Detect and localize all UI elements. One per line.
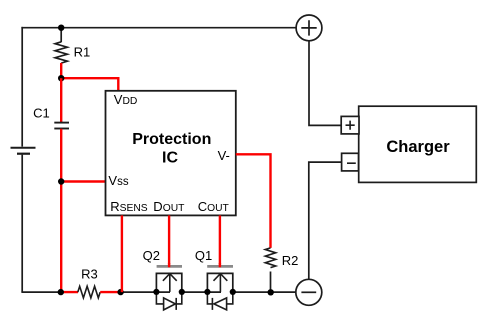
- wire DOUT red overlap on Q2 gate bar: [168, 263, 170, 267]
- wire DOUT pin to Q2 gate (red): [168, 215, 170, 264]
- svg-text:C1: C1: [33, 106, 50, 121]
- svg-text:Protection: Protection: [132, 131, 211, 148]
- wire VSS net: junction to IC VSS pin (red): [61, 180, 105, 182]
- wire pack - to charger - terminal: [309, 162, 342, 279]
- wire battery - down to bottom rail: [21, 155, 23, 293]
- wire R1 top lead (black): [60, 28, 62, 43]
- svg-text:Vss: Vss: [108, 173, 128, 188]
- wire V- net: IC pin to R2 (red): [236, 154, 271, 248]
- svg-text:R1: R1: [74, 45, 91, 60]
- wire R3 left lead (red): [61, 291, 78, 293]
- node pack - terminal (circle with minus): [296, 279, 322, 305]
- wire C1 bottom lead / VSS net down to bottom rail (red): [60, 129, 62, 292]
- node VDD junction: [58, 75, 64, 81]
- resistor R3: [78, 286, 100, 298]
- charger box: [359, 106, 477, 182]
- transistor Q2 (MOSFET with body diode): [156, 266, 182, 310]
- resistor R2: [265, 248, 275, 268]
- svg-text:Q1: Q1: [195, 248, 212, 263]
- wire pack + to charger + terminal: [309, 41, 341, 126]
- node Q2 source junction: [153, 289, 159, 295]
- svg-text:R2: R2: [282, 253, 299, 268]
- wire bottom rail right (Rsens node to minus terminal circle): [121, 291, 170, 293]
- wire left vertical (top rail down to battery +): [21, 27, 23, 147]
- wire bottom rail left (battery - to R3 node): [21, 291, 60, 293]
- capacitor C1: [54, 123, 69, 129]
- wire COUT red overlap on Q1 gate bar: [219, 263, 221, 267]
- wire RSENS pin to bottom rail (red): [121, 215, 123, 292]
- wire bottom rail Q1 to minus terminal circle: [233, 291, 296, 293]
- wire R2 bottom lead (black): [270, 272, 272, 293]
- node pack + terminal (circle with plus): [296, 15, 322, 41]
- node VSS junction: [58, 178, 64, 184]
- node R3 left junction: [58, 289, 64, 295]
- wire bottom rail between Q2 and Q1: [182, 291, 221, 293]
- charger + terminal box: [341, 116, 359, 133]
- node R1 top junction: [58, 25, 64, 31]
- wire top rail (battery + to plus terminal circle): [21, 27, 296, 29]
- node R2 bottom junction: [268, 289, 274, 295]
- node Q1 drain junction: [230, 289, 236, 295]
- charger - terminal box: [342, 153, 359, 171]
- resistor R1: [55, 42, 67, 63]
- IC U1 protection IC box: [106, 91, 236, 216]
- svg-text:Charger: Charger: [386, 138, 450, 156]
- svg-text:V-: V-: [218, 148, 230, 163]
- node R3 right junction (Rsens node): [117, 289, 123, 295]
- battery BT1 (cell symbol): [11, 148, 36, 154]
- wire R1 bottom lead (red) to VDD node: [60, 63, 62, 78]
- transistor Q1 (MOSFET with body diode): [207, 266, 233, 310]
- svg-text:R3: R3: [81, 266, 98, 281]
- node Q2 drain junction: [179, 289, 185, 295]
- wire R3 right lead (red): [100, 291, 120, 293]
- wire C1 top lead (red): [60, 78, 62, 122]
- svg-text:IC: IC: [162, 150, 178, 167]
- svg-text:Q2: Q2: [143, 248, 160, 263]
- wire VDD net: node to IC VDD pin: [61, 78, 118, 91]
- wire COUT pin to Q1 gate (red): [219, 215, 221, 264]
- node Q1 source junction: [204, 289, 210, 295]
